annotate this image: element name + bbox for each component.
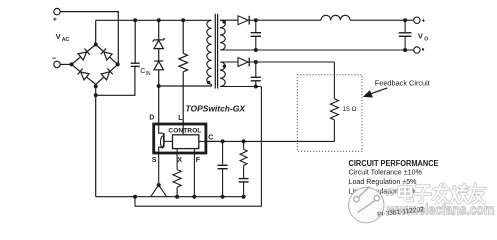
svg-text:V: V [418,32,423,41]
svg-text:L: L [178,115,183,122]
svg-text:AC: AC [62,37,70,43]
svg-text:15 Ω: 15 Ω [343,106,357,113]
svg-text:+: + [422,18,426,25]
svg-text:Circuit Tolerance ±10%: Circuit Tolerance ±10% [349,168,423,177]
svg-text:C: C [208,135,213,142]
svg-text:S: S [152,157,157,164]
svg-text:CONTROL: CONTROL [168,127,201,134]
svg-text:O: O [424,36,428,42]
svg-text:V: V [56,32,61,41]
svg-text:D: D [149,115,154,122]
svg-text:TOPSwitch-GX: TOPSwitch-GX [186,104,246,113]
svg-text:X: X [177,157,182,164]
svg-text:IN: IN [146,71,151,77]
svg-text:+: + [53,17,57,24]
svg-text:CIRCUIT PERFORMANCE: CIRCUIT PERFORMANCE [349,159,440,168]
svg-text:F: F [196,157,201,164]
svg-text:Feedback Circuit: Feedback Circuit [375,79,431,88]
svg-text:–: – [52,53,57,62]
